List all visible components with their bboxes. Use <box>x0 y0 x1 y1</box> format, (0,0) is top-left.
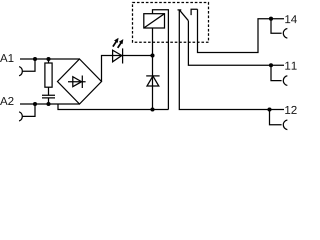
terminal clamp 12 <box>283 120 287 130</box>
freewheeling diode cathode bar <box>146 75 159 77</box>
capacitor C1 <box>42 95 55 98</box>
node junction on A2 wire <box>33 102 37 106</box>
terminal clamp 14 <box>283 28 287 38</box>
wire terminal 11 drop <box>271 65 282 80</box>
freewheeling diode triangle <box>147 76 159 86</box>
wire terminal 14 drop <box>271 19 282 34</box>
LED arrow 1 <box>113 42 116 47</box>
label A2 <box>0 97 13 105</box>
wire A2 terminal drop <box>22 104 35 116</box>
wire A1 horizontal <box>20 58 80 60</box>
contact COM line to terminal 11 <box>188 21 284 66</box>
node junction on A1 wire <box>33 57 37 61</box>
LED cathode bar <box>122 48 124 63</box>
wire A2 horizontal <box>20 103 80 105</box>
label 11 <box>285 62 296 70</box>
contact NO hook <box>191 9 197 15</box>
wire capacitor bottom lead <box>48 98 50 104</box>
contact NC line to terminal 12 <box>179 10 284 110</box>
bridge rectifier diamond <box>58 59 102 104</box>
bridge diode cathode bar <box>81 76 83 89</box>
wire A1 terminal drop <box>22 59 35 71</box>
terminal clamp A2 <box>19 112 22 121</box>
wire terminal 12 drop <box>270 110 282 125</box>
wire bridge output riser to LED <box>102 56 153 82</box>
label A1 <box>0 54 13 62</box>
bridge diode triangle <box>73 77 82 87</box>
label 12 <box>285 106 296 114</box>
wire coil feed <box>152 28 154 56</box>
terminal clamp A1 <box>19 67 22 76</box>
LED arrow 2 <box>118 43 121 48</box>
node junction diode to return bus <box>150 107 154 111</box>
node junction terminal 11 <box>269 63 273 67</box>
node junction A1 to resistor branch <box>46 57 50 61</box>
wire resistor top lead <box>48 59 50 63</box>
contact NC tick <box>178 9 182 11</box>
node junction terminal 12 <box>267 107 271 111</box>
bridge diode wire <box>68 81 86 83</box>
relay coil K1 <box>144 14 165 28</box>
node junction LED coil diode <box>150 53 154 57</box>
wire return bus <box>58 104 168 110</box>
node junction A2 resistor branch <box>46 102 50 106</box>
terminal clamp 11 <box>283 76 287 86</box>
freewheeling diode D1 wire <box>152 56 154 110</box>
label 14 <box>285 15 297 23</box>
wire coil return over contact <box>153 10 169 110</box>
LED triangle <box>113 50 122 62</box>
resistor R1 <box>45 63 52 87</box>
contact NO line to terminal 14 <box>198 9 285 52</box>
contact blade <box>180 10 189 21</box>
wire resistor to capacitor lead <box>48 87 50 95</box>
dashed relay enclosure <box>133 3 209 43</box>
node junction terminal 14 <box>269 17 273 21</box>
relay coil diagonal <box>144 14 165 28</box>
